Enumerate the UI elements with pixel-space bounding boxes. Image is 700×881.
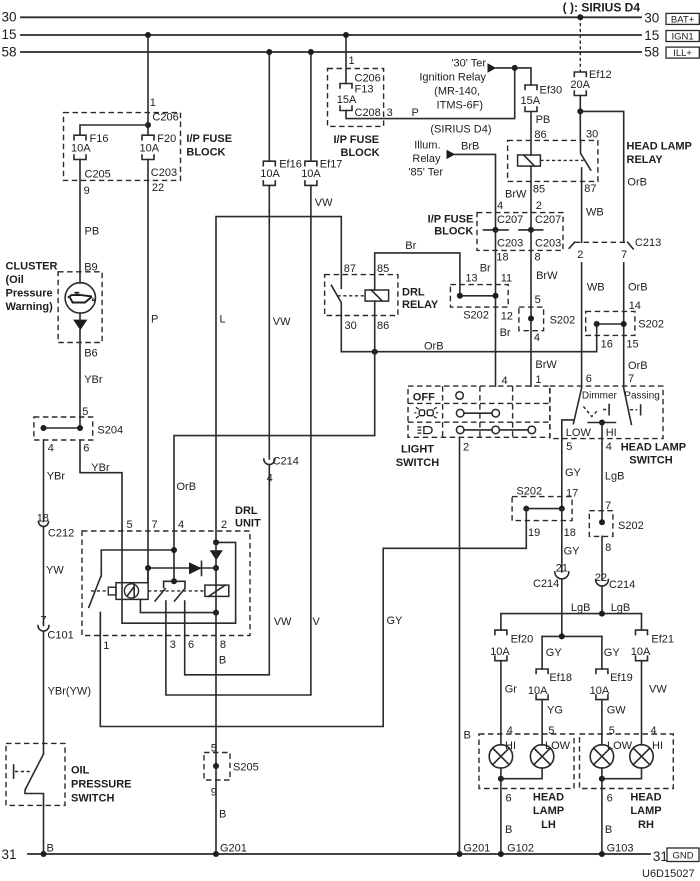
svg-text:9: 9 bbox=[84, 185, 90, 197]
svg-text:GW: GW bbox=[607, 704, 627, 716]
svg-text:GY: GY bbox=[565, 467, 582, 479]
svg-text:HI: HI bbox=[652, 740, 663, 752]
svg-text:86: 86 bbox=[534, 129, 546, 141]
svg-text:1: 1 bbox=[103, 640, 109, 652]
svg-text:S202: S202 bbox=[550, 315, 576, 327]
svg-text:4: 4 bbox=[178, 519, 184, 531]
svg-text:I/P FUSE: I/P FUSE bbox=[428, 214, 474, 226]
svg-text:15A: 15A bbox=[337, 94, 357, 106]
fuse Ef20 10A bbox=[490, 630, 533, 661]
BAT+ tag bbox=[666, 13, 699, 25]
svg-text:OrB: OrB bbox=[177, 481, 197, 493]
svg-text:2: 2 bbox=[577, 249, 583, 261]
svg-text:LH: LH bbox=[541, 819, 556, 831]
wire B from LH lamps to ground G102 bbox=[498, 779, 534, 857]
bus 30 (BAT+) bbox=[2, 10, 660, 26]
wire LgB from HI to S202 pin 7 bbox=[602, 439, 624, 522]
svg-text:15: 15 bbox=[2, 27, 17, 42]
wire B from DRL unit pin 8 to S205 bbox=[211, 613, 226, 766]
svg-text:15: 15 bbox=[626, 338, 638, 350]
svg-text:5: 5 bbox=[82, 406, 88, 418]
connector C214 pin 22 bbox=[596, 579, 636, 591]
wire Br from DRL relay 85 to S202 pin 13 bbox=[375, 240, 478, 296]
svg-text:GND: GND bbox=[672, 851, 693, 862]
svg-text:7: 7 bbox=[621, 249, 627, 261]
svg-text:C207: C207 bbox=[535, 214, 561, 226]
I/P FUSE BLOCK title (left) bbox=[186, 133, 232, 158]
svg-text:G102: G102 bbox=[507, 843, 534, 855]
svg-text:4: 4 bbox=[650, 725, 656, 737]
fuse Ef17 10A bbox=[301, 159, 342, 186]
DRL RELAY title bbox=[402, 287, 439, 312]
svg-text:SWITCH: SWITCH bbox=[629, 454, 672, 466]
wire from ignition relay arrow to Ef30 bbox=[496, 68, 531, 85]
wire BrB from arrow to C207 pin 4 bbox=[455, 140, 495, 230]
svg-text:10A: 10A bbox=[140, 143, 160, 155]
svg-text:CLUSTER: CLUSTER bbox=[6, 261, 58, 273]
DRL relay coil bbox=[365, 263, 389, 332]
head lamp relay dashed box bbox=[508, 140, 598, 181]
svg-text:ILL+: ILL+ bbox=[673, 48, 692, 59]
DRL relay dashed box bbox=[325, 275, 398, 316]
light switch dashed box bbox=[408, 386, 550, 437]
svg-text:85: 85 bbox=[377, 263, 389, 275]
arrow from ignition relay bbox=[488, 63, 497, 72]
head lamp switch dashed box bbox=[550, 386, 663, 439]
svg-text:Illum.: Illum. bbox=[414, 140, 440, 152]
svg-text:P: P bbox=[151, 314, 158, 326]
svg-text:BLOCK: BLOCK bbox=[341, 147, 380, 159]
oil pressure switch bbox=[6, 743, 65, 805]
wire V from Ef17 down to DRL unit pin 3 bbox=[166, 185, 321, 695]
DRL unit internal switch blade (left) bbox=[89, 577, 101, 608]
svg-text:YBr(YW): YBr(YW) bbox=[48, 686, 91, 698]
wire OrB from C213 pin 7 to S202 pin 14 bbox=[624, 263, 648, 386]
wire GY from S202 pin 19 to DRL unit pin 1 bbox=[100, 509, 526, 727]
svg-text:Br: Br bbox=[480, 263, 491, 275]
wire VW from C214 down to DRL unit pin 6 bbox=[185, 465, 292, 675]
DRL unit internal mechanical link (dashed) bbox=[91, 590, 108, 592]
bus 31 (GND) bbox=[2, 847, 668, 864]
node diode junction bbox=[213, 565, 219, 571]
svg-text:4: 4 bbox=[507, 725, 513, 737]
lamp RH LOW bbox=[590, 740, 632, 768]
DRL unit pin labels bottom bbox=[103, 639, 226, 652]
svg-text:S205: S205 bbox=[233, 761, 259, 773]
svg-text:LIGHT: LIGHT bbox=[401, 444, 434, 456]
svg-text:YBr: YBr bbox=[91, 462, 110, 474]
svg-text:LAMP: LAMP bbox=[630, 805, 661, 817]
svg-text:2: 2 bbox=[536, 200, 542, 212]
wire P (SIRIUS D4) from F13 to ignition relay node bbox=[346, 68, 515, 136]
svg-text:10A: 10A bbox=[490, 646, 510, 658]
svg-text:1: 1 bbox=[150, 97, 156, 109]
splice S204 bbox=[34, 417, 123, 455]
wire from bus 15 to C206 pin 1 (middle block) bbox=[343, 32, 355, 84]
svg-text:VW: VW bbox=[649, 684, 667, 696]
node pin2 top bbox=[213, 539, 219, 545]
svg-text:OFF: OFF bbox=[413, 391, 435, 403]
svg-text:OIL: OIL bbox=[71, 765, 90, 777]
svg-text:VW: VW bbox=[274, 616, 292, 628]
svg-text:B: B bbox=[219, 655, 226, 667]
svg-text:6: 6 bbox=[83, 443, 89, 455]
svg-text:LgB: LgB bbox=[605, 471, 625, 483]
splice S202 (17/19/18) bbox=[512, 486, 576, 540]
svg-text:4: 4 bbox=[502, 375, 508, 387]
svg-text:58: 58 bbox=[2, 44, 17, 59]
bus 58 (ILL+) bbox=[2, 44, 660, 59]
HEAD LAMP LH title bbox=[533, 792, 564, 831]
svg-text:C203: C203 bbox=[497, 237, 523, 249]
svg-text:10A: 10A bbox=[301, 168, 321, 180]
DRL unit internal mechanical link through blades (dashed) bbox=[148, 590, 205, 592]
wire L from DRL unit pin 2 up and over to DRL relay 87 bbox=[216, 217, 341, 543]
svg-text:Ef17: Ef17 bbox=[320, 159, 343, 171]
splice S205 bbox=[204, 753, 259, 799]
svg-text:RELAY: RELAY bbox=[402, 299, 439, 311]
DRL relay switch 87-30 bbox=[331, 263, 356, 332]
DRL unit pin labels top bbox=[127, 519, 228, 531]
node OrB/DRL junction bbox=[372, 349, 378, 355]
passing switch blade bbox=[624, 386, 660, 424]
svg-text:Br: Br bbox=[500, 327, 511, 339]
svg-text:Relay: Relay bbox=[412, 153, 441, 165]
fuse Ef16 10A bbox=[260, 159, 302, 186]
ILL+ tag bbox=[666, 47, 699, 59]
dashed wire SIRIUS from bus 30 to Ef12 bbox=[577, 14, 583, 72]
wire OrB from OrB node to DRL unit pin 4 bbox=[174, 352, 375, 582]
LIGHT SWITCH title bbox=[396, 444, 439, 470]
wire YG from Ef18 to LH LOW lamp bbox=[542, 700, 563, 745]
svg-text:(MR-140,: (MR-140, bbox=[434, 86, 480, 98]
svg-text:18: 18 bbox=[564, 527, 576, 539]
IGN1 tag bbox=[666, 31, 699, 43]
svg-text:12: 12 bbox=[501, 310, 513, 322]
svg-text:C203: C203 bbox=[151, 167, 177, 179]
svg-text:DRL: DRL bbox=[235, 505, 258, 517]
svg-text:Ef30: Ef30 bbox=[540, 85, 563, 97]
svg-text:C205: C205 bbox=[85, 169, 111, 181]
svg-text:I/P FUSE: I/P FUSE bbox=[186, 133, 232, 145]
passing mechanical link bbox=[630, 405, 641, 415]
oil can icon bbox=[68, 293, 94, 303]
light switch park row icon bbox=[414, 407, 438, 418]
light switch head row icon bbox=[418, 427, 433, 434]
svg-text:4: 4 bbox=[497, 200, 503, 212]
svg-text:Pressure: Pressure bbox=[6, 288, 53, 300]
HEAD LAMP RELAY title bbox=[627, 140, 692, 166]
HI contact bbox=[588, 420, 617, 439]
svg-text:18: 18 bbox=[496, 252, 508, 264]
svg-text:6: 6 bbox=[607, 793, 613, 805]
svg-text:8: 8 bbox=[535, 252, 541, 264]
svg-text:WB: WB bbox=[587, 282, 605, 294]
svg-text:SWITCH: SWITCH bbox=[396, 457, 439, 469]
svg-text:HEAD: HEAD bbox=[533, 792, 564, 804]
svg-text:30: 30 bbox=[345, 320, 357, 332]
DRL unit internal: sensor ground line bbox=[140, 599, 216, 612]
wire pin2 through coil to pin8 bbox=[215, 542, 217, 612]
svg-text:S202: S202 bbox=[463, 310, 489, 322]
svg-text:C214: C214 bbox=[533, 578, 559, 590]
DRL unit internal contact bracket bbox=[164, 578, 185, 587]
svg-text:15: 15 bbox=[644, 28, 659, 43]
svg-text:2: 2 bbox=[221, 519, 227, 531]
wire from bus 15 to C206 pin 1 bbox=[145, 32, 179, 135]
connector C101 bbox=[38, 626, 74, 642]
svg-text:Warning): Warning) bbox=[6, 301, 54, 313]
node C206 junction bbox=[145, 122, 151, 128]
svg-text:1: 1 bbox=[349, 55, 355, 67]
svg-text:PB: PB bbox=[85, 226, 100, 238]
DRL unit internal diode (vertical) bbox=[210, 550, 223, 560]
svg-text:C101: C101 bbox=[47, 629, 73, 641]
wire OrB from S202 pin 16 to DRL relay 30/86 bbox=[341, 316, 596, 353]
svg-text:F13: F13 bbox=[355, 84, 374, 96]
svg-text:S202: S202 bbox=[516, 486, 542, 498]
diode B6 (indicator) bbox=[73, 313, 97, 359]
connector C207/C203 left (pins 4/18) bbox=[484, 200, 524, 263]
svg-text:5: 5 bbox=[548, 725, 554, 737]
svg-text:Passing: Passing bbox=[624, 390, 660, 401]
wire GY distribution line bbox=[542, 633, 620, 658]
wire jog from C206 node to fuse F16 bbox=[80, 125, 148, 135]
svg-text:Gr: Gr bbox=[505, 684, 518, 696]
wire WB from C213 pin 2 to head lamp switch dimmer bbox=[582, 263, 605, 386]
splice S202 (13/11/12) bbox=[450, 285, 513, 323]
svg-text:LOW: LOW bbox=[566, 427, 592, 439]
wire GY from S202 pin 18 to C214 pin 21 bbox=[556, 509, 580, 575]
wire to Ef21 bbox=[641, 614, 643, 631]
svg-text:Ef16: Ef16 bbox=[279, 159, 302, 171]
LOW contact bbox=[562, 420, 592, 439]
svg-text:PRESSURE: PRESSURE bbox=[71, 779, 132, 791]
svg-text:30: 30 bbox=[2, 10, 17, 25]
wire LgB distribution line bbox=[501, 611, 642, 617]
node P/Ef30 junction bbox=[512, 65, 518, 71]
svg-text:10A: 10A bbox=[631, 646, 651, 658]
splice S202 (5/4) on BrW wire bbox=[519, 307, 575, 344]
wire BrW from S202 to light switch pin 1 bbox=[535, 359, 557, 386]
svg-text:Ef12: Ef12 bbox=[589, 69, 612, 81]
svg-text:10A: 10A bbox=[71, 143, 91, 155]
svg-text:1: 1 bbox=[535, 374, 541, 386]
wire to Ef19 bbox=[601, 636, 603, 669]
svg-text:B6: B6 bbox=[84, 348, 97, 360]
connector C208 pin 3 bbox=[355, 107, 393, 119]
fuse F13 15A bbox=[337, 84, 374, 111]
DRL unit dashed box bbox=[82, 531, 250, 636]
svg-text:GY: GY bbox=[604, 647, 621, 659]
DRL unit internal: top-left branch to switch bbox=[101, 550, 174, 576]
illumination relay '85' terminal callout bbox=[408, 140, 443, 179]
fuse F16 10A bbox=[71, 133, 108, 160]
node pin7 junction bbox=[145, 565, 151, 571]
wire VW from Ef16 down to C214 bbox=[269, 185, 291, 459]
svg-text:20A: 20A bbox=[570, 79, 590, 91]
svg-text:22: 22 bbox=[152, 182, 164, 194]
svg-text:C203: C203 bbox=[535, 237, 561, 249]
svg-text:HEAD LAMP: HEAD LAMP bbox=[627, 140, 692, 152]
svg-text:3: 3 bbox=[170, 639, 176, 651]
svg-text:7: 7 bbox=[41, 614, 47, 626]
wire to Ef18 bbox=[541, 636, 543, 669]
svg-text:HEAD: HEAD bbox=[630, 792, 661, 804]
svg-text:I/P FUSE: I/P FUSE bbox=[334, 134, 380, 146]
light switch internal partitions bbox=[408, 386, 550, 437]
svg-text:BrW: BrW bbox=[505, 189, 527, 201]
DRL unit pin 6 stub bbox=[184, 601, 186, 636]
svg-text:31: 31 bbox=[653, 849, 668, 864]
svg-text:C213: C213 bbox=[635, 237, 661, 249]
svg-text:G103: G103 bbox=[607, 843, 634, 855]
fuse Ef19 10A bbox=[590, 669, 633, 700]
svg-text:B: B bbox=[47, 843, 54, 855]
svg-text:GY: GY bbox=[564, 546, 581, 558]
dimmer switch blade bbox=[573, 386, 617, 424]
svg-text:YW: YW bbox=[46, 565, 64, 577]
svg-text:14: 14 bbox=[629, 300, 641, 312]
wire Br from C203 pin 18 to S202 pin 11 bbox=[480, 230, 512, 386]
svg-text:ITMS-6F): ITMS-6F) bbox=[437, 100, 483, 112]
svg-text:S204: S204 bbox=[97, 424, 123, 436]
svg-text:GY: GY bbox=[546, 647, 563, 659]
head lamp RH dashed box bbox=[580, 734, 674, 789]
I/P FUSE BLOCK title (lower) bbox=[428, 214, 474, 238]
I/P fuse block dashed box (left) bbox=[64, 113, 181, 181]
head lamp relay link (dashed) bbox=[540, 159, 583, 161]
svg-text:B: B bbox=[464, 729, 471, 741]
svg-text:OrB: OrB bbox=[628, 360, 648, 372]
DRL unit internal pressure sensor bbox=[108, 583, 148, 600]
splice S202 (7/8) bbox=[589, 511, 643, 555]
wire LgB from C214 to headlamp fuse feed bbox=[571, 586, 630, 614]
LH lamp common wire bbox=[498, 768, 542, 782]
splice S202 (14/16/15) bbox=[586, 311, 664, 350]
wire YBr from S204 pin 4 down bbox=[37, 440, 66, 525]
svg-text:RH: RH bbox=[638, 819, 654, 831]
svg-text:YG: YG bbox=[547, 704, 563, 716]
fuse Ef30 15A bbox=[521, 85, 563, 112]
DRL UNIT title bbox=[235, 505, 261, 530]
svg-text:Ef21: Ef21 bbox=[651, 634, 674, 646]
svg-text:BrB: BrB bbox=[461, 140, 479, 152]
DRL relay link (dashed) bbox=[338, 295, 366, 297]
svg-text:P: P bbox=[412, 107, 419, 119]
wire LgB from S202 pin 8 to C214 pin 22 bbox=[595, 536, 607, 584]
bus 15 (IGN1) bbox=[2, 27, 660, 43]
svg-text:87: 87 bbox=[344, 263, 356, 275]
svg-text:UNIT: UNIT bbox=[235, 518, 261, 530]
svg-text:WB: WB bbox=[586, 206, 604, 218]
svg-text:4: 4 bbox=[534, 332, 540, 344]
wire GY from C214 to fuse branch bbox=[561, 579, 563, 637]
svg-text:U6D15027: U6D15027 bbox=[642, 868, 695, 880]
svg-text:7: 7 bbox=[628, 373, 634, 385]
lamp LH LOW bbox=[530, 740, 570, 768]
light switch OFF row bbox=[413, 391, 464, 403]
svg-text:(Oil: (Oil bbox=[6, 274, 24, 286]
wire VW from Ef21 to RH HI lamp bbox=[642, 661, 668, 745]
svg-text:5: 5 bbox=[535, 294, 541, 306]
wire from bus 58 to Ef17 bbox=[308, 49, 314, 161]
connector C203 pin 22 bbox=[151, 167, 177, 194]
svg-text:31: 31 bbox=[2, 847, 17, 862]
svg-text:GY: GY bbox=[387, 615, 404, 627]
svg-text:DRL: DRL bbox=[402, 287, 425, 299]
wire OrB from Ef12 node to C213 pin 7 bbox=[580, 111, 647, 242]
ignition relay '30' terminal callout bbox=[419, 58, 486, 112]
svg-text:B: B bbox=[505, 824, 512, 836]
svg-text:IGN1: IGN1 bbox=[672, 31, 694, 42]
svg-text:C206: C206 bbox=[152, 112, 178, 124]
wire to Ef20 bbox=[500, 614, 502, 631]
svg-text:30: 30 bbox=[586, 128, 598, 140]
svg-text:BAT+: BAT+ bbox=[671, 14, 695, 25]
wire P from F20 down to DRL unit pin 7 bbox=[148, 160, 158, 583]
svg-text:6: 6 bbox=[506, 793, 512, 805]
wire from Ef12 to relay 30 and OrB branch bbox=[577, 96, 598, 141]
svg-text:BrW: BrW bbox=[535, 359, 557, 371]
wire B from light switch pin 2 to ground G201 bbox=[457, 437, 491, 857]
svg-text:4: 4 bbox=[606, 441, 612, 453]
svg-text:BLOCK: BLOCK bbox=[434, 226, 473, 238]
DRL unit pin 3 stub bbox=[165, 601, 167, 636]
connector C213 bbox=[569, 237, 661, 261]
svg-text:11: 11 bbox=[501, 273, 512, 285]
wire B from oil pressure switch to ground bus bbox=[41, 805, 54, 857]
svg-text:8: 8 bbox=[605, 542, 611, 554]
svg-text:LAMP: LAMP bbox=[533, 805, 564, 817]
svg-text:85: 85 bbox=[533, 184, 545, 196]
svg-text:2: 2 bbox=[463, 442, 469, 454]
svg-text:21: 21 bbox=[556, 562, 568, 574]
DRL unit internal relay coil bbox=[205, 585, 229, 596]
svg-text:Ef20: Ef20 bbox=[511, 634, 534, 646]
svg-text:LgB: LgB bbox=[571, 602, 591, 614]
wire YBr from S204 pin 6 to DRL unit pin 5 bbox=[80, 440, 122, 531]
svg-text:B: B bbox=[605, 824, 612, 836]
svg-text:RELAY: RELAY bbox=[627, 154, 664, 166]
fuse Ef12 20A bbox=[570, 69, 611, 96]
connector C214 pin 21 bbox=[533, 572, 569, 590]
svg-text:( ): SIRIUS D4: ( ): SIRIUS D4 bbox=[563, 1, 641, 15]
fuse F20 10A bbox=[140, 133, 177, 160]
svg-text:5: 5 bbox=[127, 519, 133, 531]
light switch head row contacts bbox=[456, 426, 535, 434]
svg-text:C207: C207 bbox=[497, 214, 523, 226]
svg-text:'85' Ter: '85' Ter bbox=[408, 167, 443, 179]
svg-text:58: 58 bbox=[644, 45, 659, 60]
dimmer mechanical link bbox=[583, 405, 609, 417]
cluster dashed box bbox=[58, 272, 102, 343]
svg-text:10A: 10A bbox=[590, 685, 610, 697]
svg-text:5: 5 bbox=[609, 725, 615, 737]
node pin4 upper junction bbox=[171, 547, 177, 553]
wire from DRL relay 86 to OrB node bbox=[374, 301, 376, 352]
svg-text:F20: F20 bbox=[157, 133, 176, 145]
svg-text:PB: PB bbox=[536, 114, 551, 126]
svg-text:87: 87 bbox=[584, 183, 596, 195]
svg-text:C212: C212 bbox=[48, 528, 74, 540]
svg-text:BrW: BrW bbox=[536, 270, 558, 282]
svg-text:3: 3 bbox=[387, 107, 393, 119]
svg-text:Ef19: Ef19 bbox=[610, 672, 633, 684]
wire BrW from relay 85 to C207 pin 2 bbox=[505, 166, 531, 230]
svg-text:Ignition Relay: Ignition Relay bbox=[419, 72, 486, 84]
svg-text:C214: C214 bbox=[273, 456, 299, 468]
